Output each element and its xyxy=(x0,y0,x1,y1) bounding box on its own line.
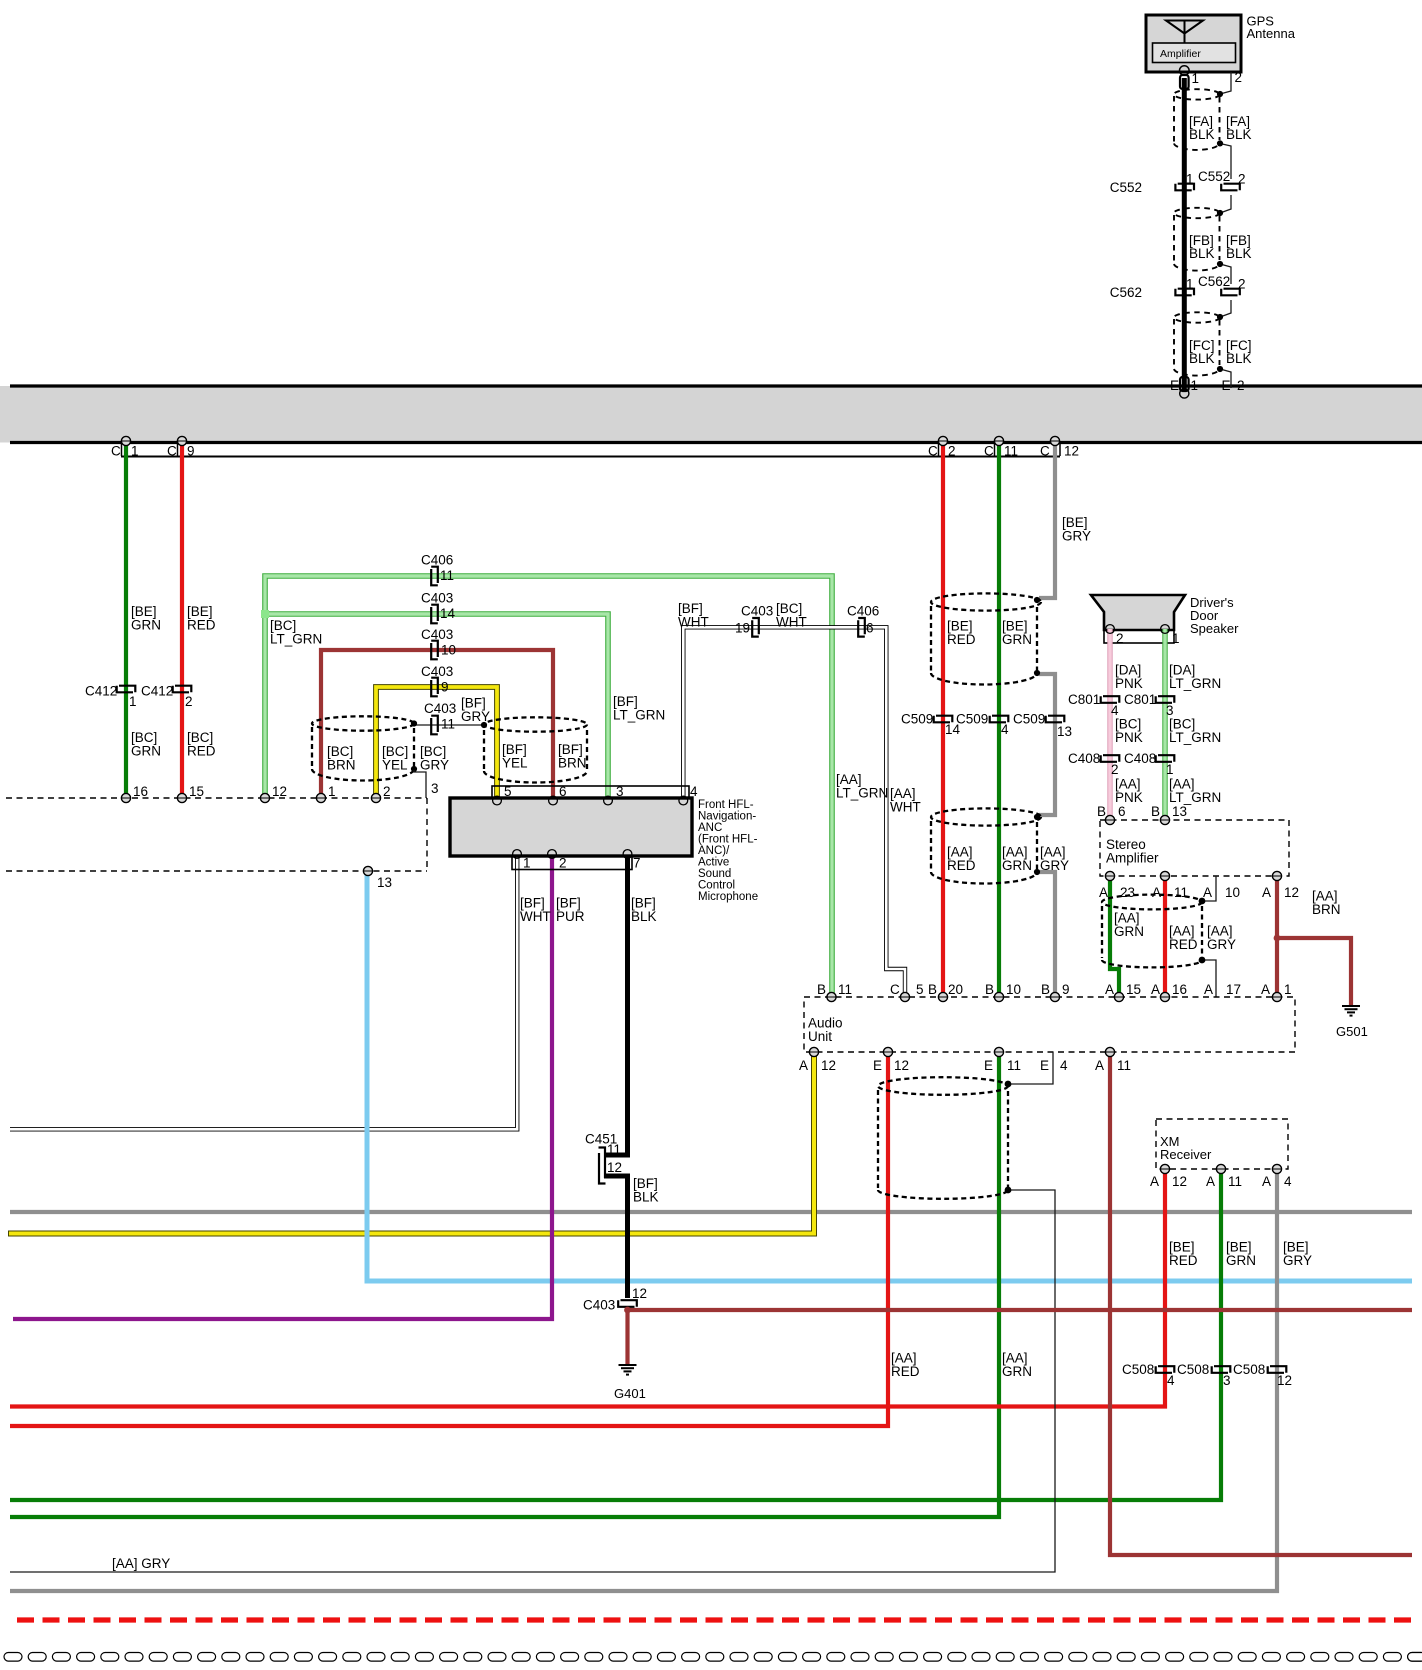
wire light blue from pin 13 xyxy=(367,871,1412,1281)
wire [BE]/[BC] RED C9-15 xyxy=(180,441,184,798)
wire [BE] GRN from XM A11 xyxy=(10,1169,1221,1500)
svg-text:A: A xyxy=(1152,885,1161,900)
svg-text:A: A xyxy=(1099,885,1108,900)
svg-text:Front HFL-: Front HFL- xyxy=(698,799,754,811)
svg-text:B: B xyxy=(985,982,994,997)
connector C403 pin 12 xyxy=(618,1300,637,1307)
shield cylinder BF (YEL/BRN) xyxy=(484,717,587,782)
svg-text:9: 9 xyxy=(1062,982,1070,997)
node AA shield top xyxy=(1034,814,1040,820)
wire [BE]/[AA] GRN C11-B10 xyxy=(997,441,1001,997)
connector C403 pin 10 xyxy=(431,641,438,660)
svg-text:RED: RED xyxy=(891,1364,920,1379)
svg-text:9: 9 xyxy=(187,444,195,459)
node XM A12 xyxy=(1160,1164,1169,1173)
svg-text:BRN: BRN xyxy=(558,756,587,771)
svg-text:C403: C403 xyxy=(421,591,453,606)
node speaker pin 2 xyxy=(1106,625,1115,634)
shield [FA] cylinder xyxy=(1174,89,1220,150)
connector C403 pin 19 xyxy=(752,618,759,637)
svg-text:ANC: ANC xyxy=(698,822,722,834)
svg-text:Control: Control xyxy=(698,880,735,892)
svg-text:B: B xyxy=(1041,982,1050,997)
svg-text:2: 2 xyxy=(383,784,391,799)
wire [DA]-[AA] LT_GRN xyxy=(1162,629,1167,820)
svg-text:23: 23 xyxy=(1120,885,1135,900)
node BRN junction xyxy=(1274,935,1281,942)
svg-text:WHT: WHT xyxy=(776,615,807,630)
wire [AA] RED from audio E12 xyxy=(10,1052,888,1426)
wire [BE] RED from XM A12 xyxy=(10,1169,1165,1407)
node audio shield top xyxy=(1005,1081,1012,1088)
svg-text:A: A xyxy=(1206,1174,1215,1189)
connector C403 pin 11 xyxy=(431,716,438,735)
svg-text:A: A xyxy=(1105,982,1114,997)
connector C line xyxy=(121,456,1060,458)
wire [AA] GRN from audio E11 xyxy=(10,1052,999,1517)
shield [FC] cylinder xyxy=(1174,312,1220,375)
svg-text:12: 12 xyxy=(1172,1174,1187,1189)
svg-text:C412: C412 xyxy=(85,684,117,699)
svg-text:RED: RED xyxy=(947,632,976,647)
svg-text:BLK: BLK xyxy=(1189,351,1215,366)
svg-text:Amplifier: Amplifier xyxy=(1160,48,1201,60)
svg-text:C403: C403 xyxy=(741,604,773,619)
svg-text:BLK: BLK xyxy=(633,1190,659,1205)
svg-text:A: A xyxy=(1262,885,1271,900)
svg-text:11: 11 xyxy=(1228,1174,1242,1189)
node C12 xyxy=(1050,436,1059,445)
node E1 on band xyxy=(1180,389,1189,398)
svg-text:2: 2 xyxy=(1235,70,1243,85)
svg-text:12: 12 xyxy=(1284,885,1299,900)
ground G401 xyxy=(619,1365,637,1375)
svg-text:16: 16 xyxy=(1172,982,1187,997)
node amp B6 xyxy=(1105,815,1114,824)
svg-text:GRN: GRN xyxy=(1002,632,1032,647)
svg-text:12: 12 xyxy=(1277,1373,1292,1388)
pin tick C2 xyxy=(938,444,940,456)
shield cylinder amp outputs xyxy=(1102,895,1202,968)
svg-text:C: C xyxy=(890,982,900,997)
connector C403 pin 14 xyxy=(431,605,438,624)
svg-text:14: 14 xyxy=(440,606,456,621)
node XM A11 xyxy=(1216,1164,1225,1173)
mic top connector strip xyxy=(492,786,689,799)
mic bottom connector strip xyxy=(512,856,632,870)
svg-text:C509: C509 xyxy=(1013,712,1045,727)
svg-text:PNK: PNK xyxy=(1115,790,1143,805)
node pin 13 xyxy=(363,866,372,875)
svg-text:3: 3 xyxy=(431,781,439,796)
boundary dashed connector line xyxy=(6,797,427,799)
node AA shield bottom xyxy=(1034,869,1040,875)
svg-text:1: 1 xyxy=(1186,172,1194,187)
wire [AA] RED amp A11-A16 xyxy=(1163,876,1167,997)
svg-text:YEL: YEL xyxy=(502,756,528,771)
shield [FB] cylinder xyxy=(1174,208,1220,271)
node audio E11 bottom xyxy=(994,1047,1003,1056)
svg-text:20: 20 xyxy=(948,982,963,997)
svg-text:2: 2 xyxy=(559,856,567,871)
XM Receiver dashed box xyxy=(1156,1119,1288,1169)
page boundary red dashed line xyxy=(17,1617,1412,1622)
node mic pin 1 xyxy=(513,850,522,859)
svg-text:11: 11 xyxy=(1007,1058,1021,1073)
svg-text:A: A xyxy=(1203,885,1212,900)
node shield FA top xyxy=(1217,91,1223,97)
wire [BF]/[BC]/[AA] WHT net from mic pin 4 to audio C5 xyxy=(683,627,905,997)
Driver's Door Speaker symbol xyxy=(1091,595,1185,630)
connector C508 pin 3 xyxy=(1212,1366,1231,1373)
node mic pin 3 xyxy=(604,796,613,805)
connector C801 pin 3 xyxy=(1156,696,1175,703)
Amplifier box U1 xyxy=(1153,43,1236,63)
svg-text:RED: RED xyxy=(1169,1253,1198,1268)
svg-text:2: 2 xyxy=(1237,378,1245,393)
node audio B20 xyxy=(938,992,947,1001)
svg-text:GRN: GRN xyxy=(1002,1364,1032,1379)
svg-text:BRN: BRN xyxy=(327,758,356,773)
svg-text:G401: G401 xyxy=(614,1386,646,1401)
svg-text:A: A xyxy=(1204,982,1213,997)
svg-text:GRN: GRN xyxy=(1114,924,1144,939)
svg-text:BLK: BLK xyxy=(1226,246,1252,261)
svg-text:GRY: GRY xyxy=(1207,937,1236,952)
node audio B11 xyxy=(827,992,836,1001)
node amp A23 xyxy=(1105,871,1114,880)
svg-text:LT_GRN: LT_GRN xyxy=(1169,790,1221,805)
node BC shield bottom xyxy=(411,766,417,772)
wire dark red branch from C403-12 xyxy=(628,1308,1412,1312)
node C9 xyxy=(177,436,186,445)
svg-text:C552: C552 xyxy=(1110,180,1142,195)
node C2 xyxy=(938,436,947,445)
svg-text:C801: C801 xyxy=(1124,692,1156,707)
wire [AA] BRN branch to G501 xyxy=(1277,938,1351,1005)
svg-text:C412: C412 xyxy=(141,684,173,699)
svg-text:WHT: WHT xyxy=(890,800,921,815)
page boundary oval chain xyxy=(4,1653,1422,1662)
wire [AA] GRN amp A23-A15 xyxy=(1110,876,1119,997)
GPS Antenna box xyxy=(1146,15,1241,72)
svg-text:(Front HFL-: (Front HFL- xyxy=(698,834,758,846)
svg-text:C509: C509 xyxy=(956,712,988,727)
wire thin E4 shield link xyxy=(1011,1052,1053,1084)
node amp B13 xyxy=(1160,815,1169,824)
node audio A1 xyxy=(1272,992,1281,1001)
svg-text:LT_GRN: LT_GRN xyxy=(1169,676,1221,691)
node BE shield bottom xyxy=(1034,670,1040,676)
node pin 16 xyxy=(121,793,130,802)
node pin 12 xyxy=(260,793,269,802)
wire [BC] LT_GRN pin12 net xyxy=(265,576,832,997)
svg-text:9: 9 xyxy=(441,680,449,695)
svg-text:A: A xyxy=(1262,1174,1271,1189)
node shield FC bottom xyxy=(1217,366,1223,372)
svg-text:C509: C509 xyxy=(901,712,933,727)
svg-text:C: C xyxy=(928,444,938,459)
svg-text:12: 12 xyxy=(607,1160,622,1175)
node pin 2 xyxy=(371,793,380,802)
svg-text:12: 12 xyxy=(894,1058,909,1073)
svg-text:C408: C408 xyxy=(1124,751,1156,766)
svg-text:17: 17 xyxy=(1226,982,1241,997)
svg-text:A: A xyxy=(1095,1058,1104,1073)
node shield FC top xyxy=(1217,314,1223,320)
node C11 xyxy=(994,436,1003,445)
node audio B9 xyxy=(1050,992,1059,1001)
svg-text:C403: C403 xyxy=(421,664,453,679)
svg-text:BLK: BLK xyxy=(631,909,657,924)
wire [BF] BLK below C451 xyxy=(604,1176,628,1298)
svg-text:19: 19 xyxy=(735,621,750,636)
svg-text:13: 13 xyxy=(1172,804,1187,819)
boundary dashed bottom line xyxy=(6,870,427,872)
svg-text:11: 11 xyxy=(1174,885,1188,900)
band bottom border xyxy=(10,441,1422,444)
node audio A11 bottom xyxy=(1105,1047,1114,1056)
GPS pin 1 terminal xyxy=(1180,66,1190,76)
svg-text:B: B xyxy=(928,982,937,997)
node audio A15 xyxy=(1114,992,1123,1001)
svg-text:16: 16 xyxy=(133,784,148,799)
svg-text:B: B xyxy=(1151,804,1160,819)
svg-text:1: 1 xyxy=(523,856,531,871)
svg-text:RED: RED xyxy=(947,858,976,873)
node shield FB bottom xyxy=(1217,261,1223,267)
connector C406 pin 6 xyxy=(858,618,865,637)
wire thin drain to pin 3 xyxy=(414,770,426,798)
node mic pin 2 xyxy=(548,850,557,859)
wire [BE]/[BC] GRN C1-16 xyxy=(124,441,128,798)
pin tick C9 xyxy=(177,444,179,456)
svg-text:6: 6 xyxy=(866,621,874,636)
node shield FB top xyxy=(1217,210,1223,216)
svg-text:4: 4 xyxy=(1167,1373,1175,1388)
node amp A11 xyxy=(1160,871,1169,880)
wire [BF] BLK from mic pin 7 xyxy=(604,856,628,1155)
node audio C5 xyxy=(900,992,909,1001)
pin tick C11 xyxy=(994,444,996,456)
svg-text:PUR: PUR xyxy=(556,909,585,924)
svg-text:C508: C508 xyxy=(1177,1362,1209,1377)
connector C412 pin 2 xyxy=(173,686,192,693)
svg-text:A: A xyxy=(1150,1174,1159,1189)
connector C508 pin 4 xyxy=(1156,1366,1175,1373)
svg-text:2: 2 xyxy=(948,444,956,459)
svg-text:15: 15 xyxy=(189,784,204,799)
svg-text:ANC)/: ANC)/ xyxy=(698,845,730,857)
connector C412 pin 1 xyxy=(117,686,136,693)
wire dark red to ground xyxy=(625,1308,629,1364)
microphone box xyxy=(450,798,692,856)
svg-text:BLK: BLK xyxy=(1226,351,1252,366)
wire [FA]-[FC] BLK coax core (thick black) xyxy=(1182,78,1187,390)
node XM A4 xyxy=(1272,1164,1281,1173)
connector C562 shield half xyxy=(1221,289,1240,296)
shield cylinder audio E12/E11 xyxy=(878,1077,1008,1199)
svg-text:B: B xyxy=(1097,804,1106,819)
svg-text:1: 1 xyxy=(1192,71,1200,86)
svg-text:WHT: WHT xyxy=(678,615,709,630)
svg-text:GRN: GRN xyxy=(131,618,161,633)
svg-text:B: B xyxy=(817,982,826,997)
svg-text:C508: C508 xyxy=(1122,1362,1154,1377)
svg-text:10: 10 xyxy=(441,643,456,658)
svg-text:10: 10 xyxy=(1006,982,1021,997)
svg-text:13: 13 xyxy=(377,875,392,890)
svg-text:6: 6 xyxy=(1118,804,1126,819)
node mic pin 4 xyxy=(679,796,688,805)
node mic pin 7 xyxy=(623,850,632,859)
wire [BC] LT_GRN branch to mic pin 3 xyxy=(265,614,608,800)
svg-text:5: 5 xyxy=(916,982,924,997)
svg-text:C: C xyxy=(1040,444,1050,459)
Audio Unit dashed box xyxy=(804,997,1295,1052)
svg-text:BLK: BLK xyxy=(1189,127,1215,142)
pin tick C1 xyxy=(121,444,123,456)
svg-text:2: 2 xyxy=(1111,762,1119,777)
connector C408 pin 1 xyxy=(1156,755,1175,762)
svg-text:7: 7 xyxy=(633,856,641,871)
svg-text:RED: RED xyxy=(187,744,216,759)
connector C509 pin 14 xyxy=(934,716,953,723)
svg-text:C403: C403 xyxy=(424,701,456,716)
svg-text:C: C xyxy=(984,444,994,459)
svg-text:A: A xyxy=(799,1058,808,1073)
svg-text:12: 12 xyxy=(821,1058,836,1073)
antenna symbol xyxy=(1166,21,1203,44)
svg-text:Navigation-: Navigation- xyxy=(698,811,756,823)
node amp A12 xyxy=(1272,871,1281,880)
svg-text:C562: C562 xyxy=(1110,285,1142,300)
svg-text:GRN: GRN xyxy=(1002,858,1032,873)
svg-text:C508: C508 xyxy=(1233,1362,1265,1377)
wire [BC]/[BF] YEL net xyxy=(376,687,497,800)
svg-text:Active: Active xyxy=(698,857,729,869)
node audio shield bottom xyxy=(1005,1187,1012,1194)
svg-text:2: 2 xyxy=(1238,172,1246,187)
wire [AA] BRN amp A12-A1 xyxy=(1275,876,1279,997)
connector C562 core half xyxy=(1175,289,1194,296)
svg-text:1: 1 xyxy=(129,694,137,709)
connector C552 shield half xyxy=(1221,184,1240,191)
shield cylinder BC (BRN/YEL) xyxy=(312,716,414,780)
wire [BE]/[AA] RED C2-B20 xyxy=(941,441,945,997)
node mic pin 6 xyxy=(549,796,558,805)
node amp shield bottom xyxy=(1199,957,1206,964)
svg-text:1: 1 xyxy=(1191,378,1199,393)
connector C552 core half xyxy=(1175,184,1194,191)
svg-text:PNK: PNK xyxy=(1115,676,1143,691)
ground G501 xyxy=(1342,1006,1360,1016)
shield cylinder AA (RED/GRN) xyxy=(931,808,1041,883)
svg-text:C801: C801 xyxy=(1068,692,1100,707)
svg-text:C403: C403 xyxy=(421,627,453,642)
svg-text:GRY: GRY xyxy=(1040,858,1069,873)
svg-text:LT_GRN: LT_GRN xyxy=(836,786,888,801)
speaker connector strip xyxy=(1104,630,1174,643)
node C403-12 junction xyxy=(624,1307,631,1314)
svg-text:WHT: WHT xyxy=(520,909,551,924)
svg-text:4: 4 xyxy=(1001,722,1009,737)
svg-text:C562: C562 xyxy=(1198,274,1230,289)
svg-text:3: 3 xyxy=(1223,1373,1231,1388)
svg-text:BLK: BLK xyxy=(1226,127,1252,142)
svg-text:G501: G501 xyxy=(1336,1024,1368,1039)
svg-text:BLK: BLK xyxy=(1189,246,1215,261)
connector C408 pin 2 xyxy=(1101,755,1120,762)
svg-text:BRN: BRN xyxy=(1312,902,1341,917)
svg-text:Receiver: Receiver xyxy=(1160,1147,1212,1162)
svg-text:GRN: GRN xyxy=(131,744,161,759)
svg-text:10: 10 xyxy=(1225,885,1240,900)
wire [BE]/[AA] GRY C12-B9 with shield jogs xyxy=(1039,441,1055,997)
svg-text:GRY: GRY xyxy=(420,758,449,773)
svg-text:PNK: PNK xyxy=(1115,730,1143,745)
node BF shield top xyxy=(481,722,487,728)
shield cylinder BE (RED/GRN) xyxy=(931,593,1041,684)
wire thin [AA] GRY drain from audio shield xyxy=(10,1190,1055,1572)
node C1 xyxy=(121,436,130,445)
svg-text:E: E xyxy=(873,1058,882,1073)
node BE shield top xyxy=(1034,597,1040,603)
connector C801 pin 4 xyxy=(1101,696,1120,703)
node shield FA bottom xyxy=(1217,140,1223,146)
GPS E1 terminal xyxy=(1180,377,1189,391)
wire brown from audio A11 xyxy=(1110,1052,1412,1555)
svg-text:1: 1 xyxy=(328,784,336,799)
wire [BC]/[BF] BRN net xyxy=(321,650,553,800)
svg-text:A: A xyxy=(1151,982,1160,997)
wire shield drain thin line from pin 2 xyxy=(1220,72,1231,388)
svg-text:C403: C403 xyxy=(583,1298,615,1313)
svg-text:15: 15 xyxy=(1126,982,1141,997)
svg-text:LT_GRN: LT_GRN xyxy=(1169,730,1221,745)
svg-text:C552: C552 xyxy=(1198,169,1230,184)
node speaker pin 1 xyxy=(1161,625,1170,634)
svg-text:GRY: GRY xyxy=(461,709,490,724)
svg-text:11: 11 xyxy=(441,717,455,732)
svg-text:Microphone: Microphone xyxy=(698,891,758,903)
svg-text:C406: C406 xyxy=(847,604,879,619)
svg-text:11: 11 xyxy=(1004,444,1018,459)
wire thin A17 shield link xyxy=(1202,960,1216,997)
svg-text:1: 1 xyxy=(1186,277,1194,292)
node pin 15 xyxy=(177,793,186,802)
wire thin [BC]/[BF] GRY shield jumper xyxy=(414,724,484,726)
node audio B10 xyxy=(994,992,1003,1001)
svg-text:LT_GRN: LT_GRN xyxy=(613,708,665,723)
svg-text:RED: RED xyxy=(1169,937,1198,952)
svg-text:A: A xyxy=(1261,982,1270,997)
svg-text:12: 12 xyxy=(272,784,287,799)
node audio A12 bottom xyxy=(809,1047,818,1056)
svg-text:Speaker: Speaker xyxy=(1190,621,1239,636)
node LT_GRN junction xyxy=(261,610,269,618)
wire yellow from audio A12: vertical + horizontal run xyxy=(8,1052,814,1234)
svg-text:1: 1 xyxy=(1172,631,1180,646)
svg-text:1: 1 xyxy=(131,444,139,459)
svg-text:GRN: GRN xyxy=(1226,1253,1256,1268)
Stereo Amplifier dashed box xyxy=(1100,820,1289,876)
svg-text:E: E xyxy=(1222,378,1231,393)
svg-text:GRY: GRY xyxy=(1062,529,1091,544)
node mic pin 5 xyxy=(493,796,502,805)
connector C403 pin 9 xyxy=(431,678,438,697)
wire [BE] GRY from XM A4 xyxy=(10,1169,1277,1591)
